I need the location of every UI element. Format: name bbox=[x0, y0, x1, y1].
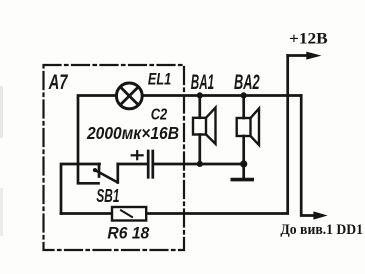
svg-text:R6 18: R6 18 bbox=[107, 225, 150, 243]
arrowhead +12V bbox=[306, 52, 321, 60]
wire +12V arrow line bbox=[288, 54, 308, 57]
svg-text:A7: A7 bbox=[48, 71, 68, 94]
node BA1 bottom bbox=[197, 161, 203, 167]
capacitor polarity plus bbox=[132, 151, 143, 159]
wire top bus left segment (lamp left to corner) bbox=[78, 96, 117, 184]
svg-text:EL1: EL1 bbox=[148, 70, 171, 89]
wire switch feed from +12V rail bbox=[61, 164, 100, 214]
dashed enclosure box A7 bbox=[44, 65, 185, 250]
switch SB1 bbox=[98, 164, 101, 177]
svg-text:2000мк×16В: 2000мк×16В bbox=[86, 123, 179, 143]
node BA2 top bbox=[241, 92, 247, 98]
wire capacitor to ground bus bbox=[154, 163, 244, 166]
ground bbox=[242, 164, 245, 179]
wire top bus right segment (lamp right to DD1 drop) bbox=[143, 94, 302, 97]
svg-text:+12В: +12В bbox=[289, 31, 328, 48]
scan smudge left edge bbox=[0, 86, 3, 138]
resistor R6 bbox=[112, 207, 146, 221]
arrowhead DD1 bbox=[313, 211, 327, 219]
svg-text:BA1: BA1 bbox=[191, 70, 214, 94]
svg-text:BA2: BA2 bbox=[234, 70, 260, 94]
svg-text:SB1: SB1 bbox=[96, 186, 119, 206]
switch pivot dot bbox=[93, 168, 97, 172]
lamp EL1 bbox=[116, 83, 142, 109]
wire bottom rail to +12V riser bbox=[61, 56, 288, 214]
svg-text:C2: C2 bbox=[151, 107, 168, 124]
wire DD1 drop bbox=[301, 96, 315, 216]
node BA1 top bbox=[197, 92, 203, 98]
capacitor C2 plates bbox=[147, 151, 150, 177]
speaker BA2 bbox=[242, 96, 245, 119]
wire switch to capacitor bbox=[118, 163, 147, 166]
speaker BA1 bbox=[198, 96, 201, 118]
node BA2 bottom / ground bbox=[240, 160, 247, 167]
svg-text:До вив.1 DD1: До вив.1 DD1 bbox=[280, 222, 363, 238]
